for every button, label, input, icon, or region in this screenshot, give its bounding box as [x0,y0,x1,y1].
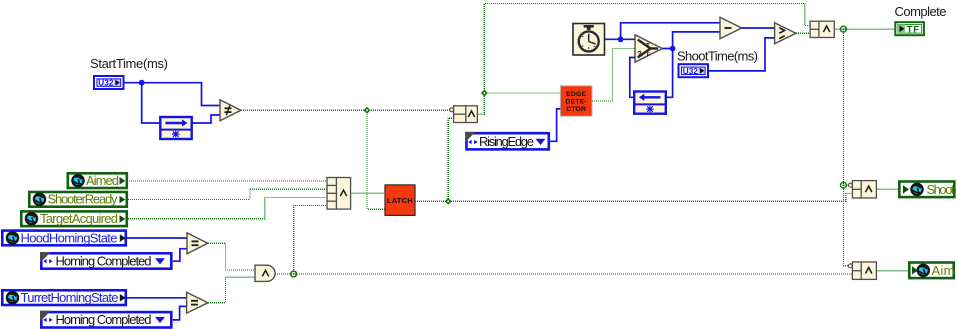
svg-text:Complete: Complete [895,4,947,19]
svg-text:ShootTime(ms): ShootTime(ms) [677,49,758,64]
enum constant RisingEdge [465,132,549,150]
wire Shoot-AND out to Shoot global [876,188,898,190]
wire eq2 out to AND gate bottom input [208,277,255,302]
svg-text:EDGE: EDGE [566,91,586,98]
wire branch down to LATCH lower input [367,110,385,209]
svg-text:CTOR: CTOR [566,106,586,113]
wire Aimed out to compound4in input 1 [127,180,327,182]
svg-text:Homing Completed: Homing Completed [56,312,152,327]
wire enum2 to eq2 bottom input [173,306,187,320]
wire EDGE DETECTOR out to select s input [592,49,635,102]
wire ShooterReady out to compound4in input 2 [128,189,327,199]
wire AND gate out long run to Aim compound bottom input [275,273,852,275]
wire U32 out to neq top input [125,83,221,106]
wire complete-AND out to TF indicator [834,28,894,30]
control ShootTime U32 terminal [679,64,709,77]
feedback node FB1 (right arrow) [160,117,191,139]
junction green at 448,200 [445,198,452,205]
svg-text:LATCH: LATCH [387,196,413,205]
op neq (Not Equal?) [220,100,241,121]
op subtract [720,17,742,38]
wire FB2 out up to select f input [630,58,635,98]
junction green at 293,274 [291,271,297,277]
svg-text:StartTime(ms): StartTime(ms) [90,56,168,71]
svg-text:DETE-: DETE- [566,99,587,106]
wire junction to EDGE DETECTOR input [484,92,560,94]
enum constant Homing Completed 1 [40,252,171,269]
junction blue dot [139,80,145,86]
junction green at 367,110 [364,107,371,114]
junction blue dot [670,46,676,52]
op eq1 Equal? [187,233,208,254]
compound Aim-AND with inverted top input [848,262,876,279]
svg-text:T: T [646,43,650,49]
global write Aim [909,263,954,279]
op AND gate [255,265,275,281]
wire TargetAcquired out to compound4in input 3 [128,197,327,218]
junction green at 484,93 [481,90,488,97]
feedback node FB2 (left arrow) [634,92,666,114]
svg-text:TF: TF [907,25,920,36]
wire neq out to compound1 bubble (long boolean) [241,109,450,111]
global read Aimed [68,173,127,188]
enum constant Homing Completed 2 [40,311,171,328]
wire TurretHomingState to eq2 top input [127,297,187,299]
wire compound4in out to LATCH top input [351,192,385,194]
compound1 AND with inverted top input [450,106,478,123]
wire junction up over the top to complete-AND top input [484,4,810,94]
svg-text:TargetAcquired: TargetAcquired [40,211,118,226]
wire Aim-AND out to Aim global [876,270,908,272]
svg-text:Shoot: Shoot [927,182,955,197]
junction green at 843,185 [841,182,847,188]
wire subtract out to gte top input [742,27,775,29]
compound compound4in AND [327,178,351,210]
wire LATCH out to junction and long run right [415,194,852,202]
op select [635,35,662,62]
op greater-or-equal [775,23,796,44]
wire complete junction down the right side [842,29,844,185]
global read TurretHomingState [2,290,126,305]
wire junction up to compound4in input 4 [294,206,327,275]
wire compound1 out up to junction [477,93,484,114]
svg-text:?: ? [637,49,642,58]
svg-text:ShooterReady: ShooterReady [48,192,119,207]
wire HoodHomingState to eq1 top input [127,237,187,239]
svg-text:TurretHomingState: TurretHomingState [21,290,119,305]
svg-text:RisingEdge: RisingEdge [479,134,534,149]
wire LATCH-out junction up to compound1 bottom input [448,118,453,201]
wire junction to feedback node input [142,83,161,123]
wire junction to Shoot compound inverted input / down to Aim compound [843,185,848,266]
control StartTime U32 terminal [94,76,124,89]
wire gte out to complete-AND bottom input [796,32,810,34]
compound complete-AND [810,21,834,37]
wire RisingEdge out to EDGE DETECTOR blue input [550,109,560,141]
wire clock out to select t input [605,38,636,40]
indicator Complete TF boolean [895,22,924,35]
node Tick Count (ms) clock [573,24,605,56]
global read HoodHomingState [2,230,126,245]
wire enum1 to eq1 bottom input [173,249,187,262]
wire FB1 out to neq bottom input [192,115,220,123]
wire eq1 out to AND gate top input [208,243,255,270]
compound Shoot-AND with inverted top input [848,181,876,198]
wire select junction down to FB2 right input [666,49,673,98]
svg-text:Aim: Aim [932,263,955,278]
junction green at 843,29 [841,26,847,32]
svg-text:HoodHomingState: HoodHomingState [21,230,118,245]
junction blue dot [618,36,624,42]
wire clock junction up to subtract top input [621,23,720,40]
svg-text:Homing Completed: Homing Completed [56,253,152,268]
subVI LATCH [385,185,415,216]
subVI EDGE DETECTOR [560,86,592,116]
global read TargetAcquired [21,211,127,226]
wire select out to junction / up to subtract bottom input [662,32,720,49]
op eq2 Equal? [187,292,208,313]
svg-text:Aimed: Aimed [86,173,119,188]
wire ShootTime out to gte bottom input [709,38,775,71]
global read ShooterReady [29,192,127,207]
svg-text:F: F [647,53,651,59]
global write Shoot [899,182,955,198]
